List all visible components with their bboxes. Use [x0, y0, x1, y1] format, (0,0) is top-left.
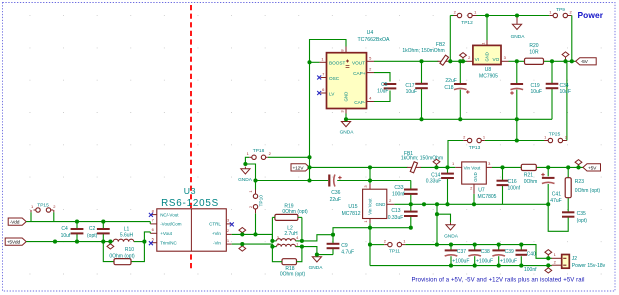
probe diamond above J2 pin1 — [545, 250, 552, 255]
wire +12V riser to U4 loop — [310, 40, 347, 181]
probe diamond below L1 junction — [107, 244, 114, 249]
ground GNDA below TP18 — [244, 167, 246, 169]
capacitor C13 — [404, 211, 418, 213]
junction dots middle section — [307, 155, 311, 159]
J2 pin 2 — [552, 264, 562, 266]
svg-text:10uF: 10uF — [406, 89, 417, 95]
svg-text:+5V: +5V — [588, 165, 597, 171]
svg-text:C14: C14 — [431, 172, 440, 178]
svg-text:R21: R21 — [524, 172, 533, 178]
svg-text:Power 15v-18v: Power 15v-18v — [572, 263, 606, 269]
svg-text:+100uF: +100uF — [452, 258, 469, 264]
U8 pin 1 GND — [486, 40, 488, 45]
regulator U15 MC7812 body — [363, 189, 387, 218]
wire TP9 drop to -5V — [571, 16, 573, 62]
svg-text:R10: R10 — [125, 247, 134, 253]
U4 pin 2 CAP+ — [367, 72, 375, 74]
svg-text:0.33uF: 0.33uF — [426, 179, 442, 185]
resistor R10 — [114, 259, 131, 265]
svg-text:0Ohm: 0Ohm — [524, 179, 538, 185]
svg-text:100nf: 100nf — [392, 192, 405, 198]
capacitor C35 — [562, 211, 574, 213]
test point TP25 — [548, 138, 552, 142]
svg-text:C41: C41 — [552, 191, 561, 197]
svg-text:Provision of a +5V, -5V and +1: Provision of a +5V, -5V and +12V rails p… — [411, 278, 584, 284]
wire GND top rail TP12-TP9 — [477, 15, 550, 17]
wire rail1 +12V to FB1 — [310, 166, 408, 168]
wire U8 VO to R20 — [509, 60, 525, 62]
wire C14 column — [447, 167, 449, 173]
wire C35 bottom loop to GND rail — [548, 204, 568, 231]
capacitor C4 — [71, 228, 84, 230]
converter U3 RS6-1205S body — [157, 209, 227, 251]
svg-text:BOOST: BOOST — [329, 60, 346, 65]
resistor R20 — [525, 58, 544, 64]
U4 pin 8 V+ — [345, 47, 347, 53]
wire C36 right to C33 riser down — [410, 181, 412, 189]
wire R18 legs — [272, 247, 282, 262]
svg-text:0Ohm (opt): 0Ohm (opt) — [280, 271, 306, 277]
probe diamond on VI rail — [460, 53, 467, 58]
svg-text:TC7662BxOA: TC7662BxOA — [357, 37, 390, 43]
test point TP11 — [388, 242, 392, 246]
svg-text:10uF: 10uF — [377, 89, 388, 95]
svg-text:GND: GND — [485, 52, 490, 61]
svg-text:C13: C13 — [391, 208, 400, 214]
svg-text:10uF: 10uF — [560, 89, 571, 95]
power label +12V — [291, 164, 310, 171]
svg-text:C16: C16 — [508, 179, 517, 185]
wire choke bottom to GNDA node — [302, 247, 333, 255]
svg-text:TP11: TP11 — [389, 248, 400, 254]
U4 pin 1 BOOST — [320, 61, 327, 63]
wire R21 to +5V label — [536, 166, 583, 168]
regulator U7 MC7805 body — [462, 162, 487, 184]
capacitor C38 — [468, 249, 481, 251]
wire TP13 riser from GND rail — [516, 119, 518, 140]
svg-text:C37: C37 — [457, 249, 466, 255]
capacitor C2 — [97, 228, 110, 230]
svg-text:LV: LV — [329, 91, 335, 96]
wire TP18 pin1 to GNDA jog — [245, 157, 255, 189]
wire GND rail jog to GNDA — [437, 214, 451, 222]
wire C9 top to rail y227.7 — [333, 228, 411, 235]
ground GNDA below choke output — [316, 255, 318, 257]
svg-text:VI: VI — [475, 57, 479, 62]
svg-text:10R: 10R — [529, 50, 539, 56]
U8 pin 3 VO — [501, 60, 509, 62]
svg-text:22uF: 22uF — [445, 78, 456, 84]
svg-text:5.6uH: 5.6uH — [120, 232, 134, 238]
U8 pin 2 VI — [467, 60, 473, 62]
svg-text:Power: Power — [578, 10, 604, 20]
svg-text:0Ohm (opt): 0Ohm (opt) — [282, 209, 308, 215]
ferrite bead FB2 — [438, 60, 452, 62]
U7 pin 1 Vin — [455, 166, 461, 168]
wire pin6 jog — [144, 232, 150, 242]
svg-text:TP12: TP12 — [461, 20, 473, 26]
U4 pin 4 CAP- — [367, 101, 375, 103]
regulator U8 MC7905 body — [473, 45, 501, 64]
svg-text:R23: R23 — [575, 179, 584, 185]
probe diamond above +Vin — [239, 228, 246, 233]
wire U7 GND column — [473, 194, 475, 204]
ground GNDA below top rail — [516, 16, 518, 25]
svg-text:(opt): (opt) — [577, 218, 588, 224]
capacitor C19 — [511, 83, 524, 85]
test point TP13 — [467, 138, 471, 142]
U4 pin 7 OSC — [321, 77, 327, 79]
wire TP10 column to U3 +Vin row — [255, 213, 257, 234]
wire rail1-rail2 link — [369, 167, 371, 180]
power label +5V — [583, 164, 601, 171]
U3 pin 2 +Vin — [226, 233, 231, 235]
U3 pin 3 CTRL — [226, 223, 231, 225]
svg-text:R20: R20 — [529, 43, 538, 49]
wire GND rail middle — [411, 203, 548, 205]
wire U4 VOUT rail to FB2 — [374, 60, 439, 62]
wire TP13 left drop to +12V rail — [448, 141, 463, 168]
wire choke top output to C9 — [302, 235, 333, 241]
resistor R19 — [275, 214, 298, 220]
junction dots top section — [307, 60, 311, 64]
svg-text:1kOhm; 150mOhm: 1kOhm; 150mOhm — [402, 48, 444, 54]
junction dots bottom section — [368, 243, 372, 247]
capacitor C34 — [546, 83, 559, 85]
U3 pin 8 NC/-Vout — [150, 214, 157, 216]
svg-text:+5Vdd: +5Vdd — [7, 240, 21, 246]
wire C37 column — [450, 245, 452, 251]
wire R23 to C35 — [567, 198, 569, 213]
wire R23 column top — [567, 167, 569, 177]
ground GNDA at GND rail jog — [450, 223, 452, 225]
svg-text:CTRL: CTRL — [209, 222, 221, 227]
wire input cap top rail — [437, 245, 552, 259]
wire +5Vdd row — [26, 241, 113, 243]
power label -5V — [576, 58, 597, 65]
U4 pin 6 LV — [321, 92, 327, 94]
svg-text:VO: VO — [493, 57, 500, 62]
svg-text:U7: U7 — [478, 187, 485, 193]
wire TP25 riser to -5V rail — [566, 61, 568, 140]
svg-text:GNDA: GNDA — [444, 234, 459, 240]
capacitor C33 — [404, 189, 418, 191]
wire R20 to -5V label — [544, 60, 576, 62]
svg-text:MC7812: MC7812 — [342, 211, 361, 217]
svg-text:U15: U15 — [348, 204, 357, 210]
wire input bottom rail — [370, 265, 552, 267]
svg-text:10uf: 10uf — [61, 233, 71, 239]
probe diamond on -5V rail — [562, 52, 569, 57]
inductor L1 — [113, 239, 134, 241]
svg-text:100nf: 100nf — [508, 185, 521, 191]
capacitor C9 — [327, 243, 340, 245]
wire TP15 right leg — [53, 212, 55, 221]
U3 pin 6 +Vout — [150, 232, 157, 234]
resistor R23 vertical — [565, 178, 571, 198]
svg-text:GNDA: GNDA — [511, 34, 526, 40]
svg-text:C4: C4 — [61, 226, 68, 232]
svg-text:4.7uF: 4.7uF — [341, 250, 354, 256]
capacitor C41 — [542, 177, 555, 179]
wire C5 loop CAP- — [374, 91, 390, 102]
capacitor C36 — [328, 175, 330, 187]
capacitor C39 — [492, 249, 505, 251]
svg-text:Vin Vout: Vin Vout — [464, 166, 481, 171]
svg-text:TP25: TP25 — [549, 131, 561, 137]
svg-text:2.7uH: 2.7uH — [284, 231, 298, 237]
svg-text:TP18: TP18 — [253, 148, 265, 154]
U3 pin 1 -Vin — [226, 243, 231, 245]
U7 pin 3 Vout — [486, 166, 492, 168]
wire R19 legs — [272, 216, 275, 218]
wire U7 out to R21 — [492, 166, 521, 168]
svg-text:C9: C9 — [341, 243, 348, 249]
wire FB2 to U8 VI — [450, 60, 466, 62]
svg-text:GNDA: GNDA — [309, 265, 324, 271]
inductor L2 bottom winding — [272, 246, 276, 248]
svg-text:C40: C40 — [527, 251, 536, 257]
wire C5 loop CAP+ — [374, 73, 390, 82]
svg-text:C2: C2 — [89, 226, 96, 232]
U7 pin 2 GND — [473, 184, 475, 194]
svg-text:Trim/NC: Trim/NC — [160, 241, 177, 246]
wire bottom GND rail of charge pump — [346, 118, 552, 120]
wire C41 column — [547, 167, 549, 176]
svg-text:GND: GND — [473, 172, 478, 181]
svg-text:TP10: TP10 — [258, 195, 264, 207]
wire R10 bypass loop — [103, 242, 114, 262]
svg-text:47uF: 47uF — [550, 198, 561, 204]
svg-text:C5: C5 — [381, 82, 388, 88]
wire C19 column — [516, 61, 518, 84]
wire U15 GND to rail — [394, 203, 411, 205]
svg-text:C39: C39 — [505, 249, 514, 255]
wire TP12 drop to VI rail — [449, 16, 451, 62]
wire C33 bottom to GND rail — [410, 195, 412, 205]
wire TP13 to TP25 — [485, 140, 548, 142]
resistor R21 — [521, 164, 536, 170]
svg-text:TP13: TP13 — [469, 145, 481, 151]
wire C38 column — [474, 245, 476, 251]
svg-text:C38: C38 — [481, 249, 490, 255]
probe diamond below J2 pin2 — [545, 268, 552, 273]
wire FB1 to U7 — [421, 166, 456, 168]
svg-text:VOUT: VOUT — [352, 60, 365, 65]
svg-text:C36: C36 — [331, 190, 340, 196]
U4 pin 5 VOUT — [367, 60, 375, 62]
svg-text:10uF: 10uF — [531, 89, 542, 95]
svg-text:J2: J2 — [572, 256, 578, 262]
svg-text:GND: GND — [376, 202, 386, 207]
test point TP10 vertical — [253, 194, 257, 198]
capacitor C16 — [497, 180, 509, 182]
test point TP12 — [457, 13, 461, 17]
svg-text:MC7905: MC7905 — [479, 74, 498, 80]
test point TP9 — [553, 13, 557, 17]
svg-text:-5V: -5V — [581, 59, 589, 65]
svg-text:0.33uF: 0.33uF — [388, 215, 404, 221]
J2 pin 1 — [552, 257, 562, 259]
power label -Vdd — [8, 218, 26, 225]
inductor L2 top winding — [272, 240, 276, 242]
svg-text:RS6-1205S: RS6-1205S — [161, 198, 219, 209]
svg-text:MC7805: MC7805 — [478, 194, 497, 200]
U15 pin 2 GND — [387, 203, 395, 205]
wire C39 column — [498, 245, 500, 251]
U15 pin 3 Vout top — [369, 184, 371, 190]
svg-text:U4: U4 — [367, 30, 374, 36]
wire -Vin row — [232, 244, 273, 247]
svg-text:TP9: TP9 — [556, 7, 565, 13]
test point TP18 — [252, 155, 256, 159]
svg-text:+100uF: +100uF — [500, 258, 517, 264]
svg-text:CAP-: CAP- — [354, 100, 366, 105]
capacitor C5 — [384, 83, 397, 85]
probe diamond on +5V rail — [575, 160, 582, 165]
wire U4 GND drop — [345, 114, 347, 120]
capacitor C37 — [445, 249, 458, 251]
wire C40 column — [520, 245, 522, 251]
svg-text:-Vin: -Vin — [213, 241, 221, 246]
svg-text:(opt): (opt) — [87, 233, 98, 239]
svg-text:+100uF: +100uF — [476, 258, 493, 264]
junction dots left section — [53, 240, 57, 244]
svg-text:TP15: TP15 — [37, 202, 49, 208]
probe diamond below -Vin — [239, 246, 246, 251]
svg-text:0Ohm (opt): 0Ohm (opt) — [109, 253, 135, 259]
U3 pin 5 Trim/NC — [150, 242, 157, 244]
wire C2 column — [102, 222, 104, 229]
svg-text:22uF: 22uF — [330, 197, 341, 203]
svg-text:C35: C35 — [577, 211, 586, 217]
test point TP15 — [36, 208, 40, 212]
wire C18 column — [459, 61, 461, 84]
capacitor C40 — [516, 249, 528, 251]
ferrite bead FB1 — [407, 166, 421, 168]
U15 pin 1 Vin bottom — [369, 219, 371, 224]
svg-text:OSC: OSC — [329, 76, 340, 81]
red dashed separator line — [190, 5, 192, 271]
svg-text:-Vout/Com: -Vout/Com — [160, 222, 182, 227]
svg-text:GNDA: GNDA — [238, 177, 253, 183]
capacitor C17 — [415, 83, 428, 85]
capacitor C14 — [441, 173, 454, 175]
wire TP11 row — [370, 244, 384, 246]
wire GND column x437 — [436, 204, 438, 244]
wire TP18 pin2 to +12V riser — [268, 156, 310, 158]
wire C13 column — [410, 204, 412, 212]
svg-text:0Ohm (opt): 0Ohm (opt) — [575, 188, 601, 194]
op IC U4 TC7662BxOA body — [327, 53, 367, 109]
wire U8 GND riser — [486, 16, 488, 41]
wire +Vin row — [232, 234, 273, 241]
svg-text:Vin Vout: Vin Vout — [368, 198, 373, 215]
wire BOOST tap — [310, 61, 320, 63]
svg-text:+Vin: +Vin — [212, 231, 222, 236]
wire C9 column — [332, 235, 334, 244]
svg-text:-Vdd: -Vdd — [10, 220, 20, 226]
capacitor C18 — [454, 83, 467, 85]
svg-text:U8: U8 — [485, 67, 492, 73]
wire C34 column — [551, 61, 553, 84]
svg-text:+Vout: +Vout — [160, 231, 172, 236]
connector J2 body — [562, 255, 570, 269]
wire C4 column — [76, 222, 78, 229]
wire C17 column — [421, 61, 423, 84]
U3 pin 7 -Vout/Com — [150, 223, 157, 225]
power label +5Vdd — [5, 238, 26, 245]
wire -Vdd row — [26, 221, 150, 223]
svg-text:GNDA: GNDA — [340, 130, 355, 136]
svg-text:+12V: +12V — [293, 165, 305, 171]
ground GNDA below U4 — [345, 119, 347, 121]
probe diamond on rail1 after FB1 — [433, 159, 440, 164]
wire U15 Vin feed column x370 — [369, 228, 371, 266]
svg-text:C33: C33 — [394, 185, 403, 191]
svg-text:100nf: 100nf — [524, 267, 537, 273]
svg-text:CAP+: CAP+ — [353, 71, 366, 76]
resistor R18 — [282, 259, 297, 265]
wire TP15 left leg — [30, 212, 32, 221]
svg-text:NC/-Vout: NC/-Vout — [160, 212, 179, 217]
wire C16 column — [502, 167, 504, 180]
svg-text:U3: U3 — [184, 186, 197, 196]
svg-text:GND: GND — [344, 92, 349, 102]
U4 pin 3 GND — [345, 109, 347, 114]
svg-text:C18: C18 — [444, 85, 453, 91]
wire rail2 +12V — [256, 180, 329, 182]
